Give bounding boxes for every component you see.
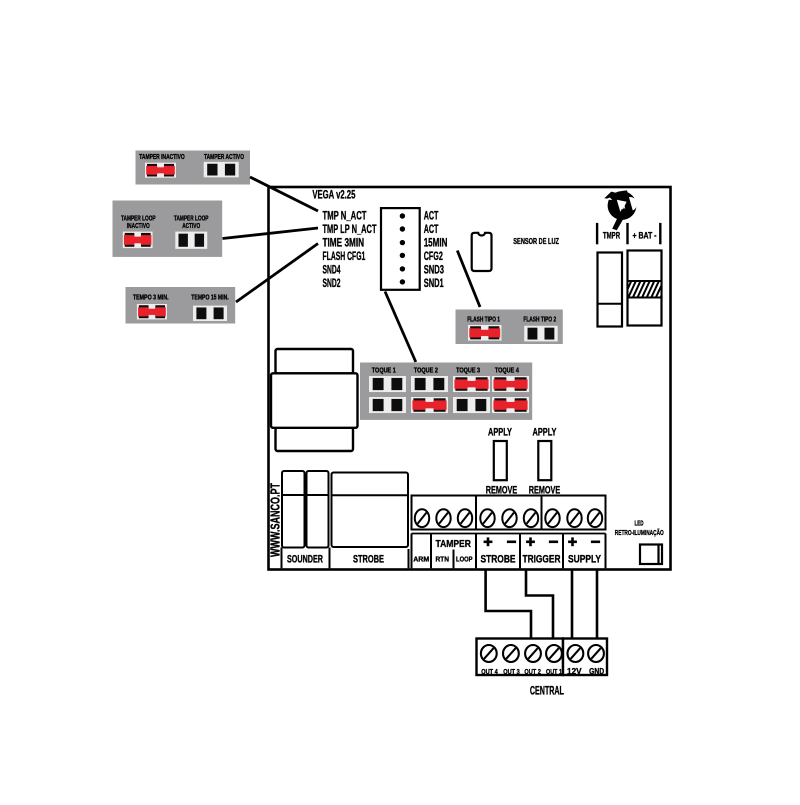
svg-text:TOQUE 1: TOQUE 1 <box>372 366 396 375</box>
sounder terminal block 2 <box>307 471 329 548</box>
terminal TMPR <box>598 253 623 327</box>
svg-text:INACTIVO: INACTIVO <box>127 221 150 230</box>
jumper TAMPER ACTIVO (open) <box>204 162 239 177</box>
svg-text:ARM: ARM <box>413 555 429 564</box>
svg-text:OUT 2: OUT 2 <box>524 667 541 676</box>
PCB board outline <box>269 187 671 570</box>
svg-text:TIME 3MIN: TIME 3MIN <box>323 235 365 249</box>
wire SUPPLY+ to 12V <box>571 570 574 638</box>
svg-text:ACT: ACT <box>424 208 439 222</box>
svg-text:CENTRAL: CENTRAL <box>530 686 564 698</box>
legend box TAMPER LOOP INACTIVO / ACTIVO <box>113 201 223 257</box>
svg-text:TEMPO 15 MIN.: TEMPO 15 MIN. <box>191 292 228 301</box>
svg-text:+ BAT -: + BAT - <box>633 231 657 241</box>
svg-text:12V: 12V <box>567 666 582 676</box>
jumper TOQUE 2 row2 (fitted, red) <box>411 397 448 413</box>
CENTRAL terminal block housing <box>477 639 608 676</box>
screw terminal TRIGGER- <box>545 509 559 527</box>
screw terminal RTN <box>436 509 450 527</box>
svg-text:RTN: RTN <box>435 555 449 564</box>
svg-text:TMP N_ACT: TMP N_ACT <box>323 208 367 222</box>
wire callout TAMPER box to TMP N_ACT <box>250 177 318 211</box>
svg-text:TAMPER ACTIVO: TAMPER ACTIVO <box>204 152 244 161</box>
svg-text:OUT 1: OUT 1 <box>546 667 562 676</box>
svg-text:LED: LED <box>635 521 644 528</box>
screw terminal STROBE+ <box>480 509 494 527</box>
screw terminal LOOP <box>458 509 472 527</box>
light sensor LDR <box>472 233 492 271</box>
svg-text:TOQUE 4: TOQUE 4 <box>495 366 520 375</box>
pin labels left column <box>323 208 377 290</box>
svg-text:TOQUE 2: TOQUE 2 <box>414 366 438 375</box>
svg-text:RETRO-ILUMINAÇÃO: RETRO-ILUMINAÇÃO <box>615 528 664 537</box>
screw terminal OUT 3 (central) <box>503 645 519 662</box>
svg-text:LOOP: LOOP <box>456 555 473 564</box>
svg-text:OUT 4: OUT 4 <box>481 667 498 676</box>
label LED RETRO-ILUMINACAO <box>615 521 664 538</box>
jumper TOQUE 1 row1 (open) <box>369 376 406 392</box>
pin labels right column <box>424 208 448 290</box>
strobe terminal block <box>332 473 409 548</box>
polarity - STROBE <box>507 541 516 544</box>
wire callout TEMPO box to TIME 3MIN <box>236 244 318 303</box>
jumper TOQUE 3 row2 (open) <box>453 397 490 413</box>
jumper TOQUE 4 row1 (fitted, red) <box>492 376 529 392</box>
polarity + STROBE <box>484 537 493 546</box>
legend box FLASH TIPO 1 / 2 <box>456 310 563 345</box>
screw terminal strip housing <box>412 496 606 530</box>
screw terminal SUPPLY+ <box>567 509 581 527</box>
svg-text:CFG2: CFG2 <box>424 249 443 263</box>
svg-text:APPLY: APPLY <box>488 427 512 439</box>
svg-text:GND: GND <box>589 666 604 676</box>
svg-text:SOUNDER: SOUNDER <box>287 553 323 565</box>
svg-text:OUT 3: OUT 3 <box>503 667 520 676</box>
jumper TAMPER INACTIVO (fitted, red) <box>145 163 176 178</box>
jumper TOQUE 1 row2 (open) <box>369 397 406 413</box>
jumper TAMPER LOOP ACTIVO (open) <box>175 232 207 249</box>
polarity + SUPPLY <box>568 537 577 546</box>
svg-text:VEGA v2.25: VEGA v2.25 <box>312 188 355 202</box>
jumper FLASH TIPO 2 (open) <box>524 326 557 342</box>
wire STROBE+ to OUT2 <box>486 570 531 638</box>
jumper TAMPER LOOP INACTIVO (fitted, red) <box>123 232 153 249</box>
svg-text:TMP LP N_ACT: TMP LP N_ACT <box>323 222 377 236</box>
svg-text:TAMPER INACTIVO: TAMPER INACTIVO <box>139 152 185 161</box>
jumper TOQUE 3 row1 (fitted, red) <box>453 376 490 392</box>
svg-text:SND2: SND2 <box>323 276 341 290</box>
svg-text:SND1: SND1 <box>424 276 444 290</box>
wire callout header to TOQUE block <box>385 292 416 363</box>
svg-text:SUPPLY: SUPPLY <box>568 553 601 565</box>
svg-text:APPLY: APPLY <box>533 427 557 439</box>
screw terminal OUT 4 (central) <box>481 645 497 662</box>
screw terminal ARM <box>415 509 429 527</box>
jumper TEMPO 3 MIN (fitted, red) <box>137 304 167 319</box>
svg-text:SND4: SND4 <box>323 262 341 276</box>
polarity - TRIGGER <box>549 541 558 544</box>
jumper TOQUE 2 row1 (open) <box>411 376 448 392</box>
wire callout TAMPER LOOP box to TMP LP N_ACT <box>223 228 319 239</box>
transformer / relay body <box>271 349 358 451</box>
separator bars TMPR/BAT <box>597 223 660 244</box>
terminal strip base line <box>412 533 606 535</box>
jumper APPLY/REMOVE 2 <box>538 441 551 480</box>
jumper APPLY/REMOVE 1 <box>494 441 507 480</box>
terminal label cell borders <box>282 534 606 569</box>
screw terminal OUT 1 (central) <box>546 645 562 662</box>
screw terminal GND (central) <box>588 645 604 662</box>
svg-text:ACTIVO: ACTIVO <box>182 221 200 230</box>
screw terminal STROBE- <box>502 509 516 527</box>
wire TRIGGER+ to OUT1 <box>526 570 553 638</box>
screw terminal OUT 2 (central) <box>525 645 541 662</box>
LED component box <box>640 545 662 565</box>
svg-text:STROBE: STROBE <box>481 553 516 565</box>
screw terminal SUPPLY- <box>588 509 602 527</box>
polarity - SUPPLY <box>591 541 600 544</box>
svg-text:TAMPER: TAMPER <box>436 538 472 550</box>
sounder terminal block 1 <box>282 471 305 548</box>
pin header J1 <box>381 208 420 290</box>
jumper TEMPO 15 MIN (open) <box>193 306 227 321</box>
wire SUPPLY- to GND <box>596 570 599 638</box>
svg-text:SENSOR DE LUZ: SENSOR DE LUZ <box>513 236 559 246</box>
legend box TEMPO 3 MIN / 15 MIN <box>126 287 236 324</box>
svg-text:FLASH TIPO 2: FLASH TIPO 2 <box>523 314 556 323</box>
screw terminal 12V (central) <box>568 645 584 662</box>
svg-text:15MIN: 15MIN <box>424 235 448 249</box>
wire callout CFG2 to FLASH TIPO block <box>457 251 480 308</box>
svg-text:FLASH TIPO 1: FLASH TIPO 1 <box>467 314 500 323</box>
svg-text:TEMPO 3 MIN.: TEMPO 3 MIN. <box>133 292 169 301</box>
svg-text:TOQUE 3: TOQUE 3 <box>456 366 480 375</box>
jumper TOQUE 4 row2 (fitted, red) <box>492 397 529 413</box>
svg-text:WWW.SANCO.PT: WWW.SANCO.PT <box>269 483 283 557</box>
jumper FLASH TIPO 1 (fitted, red) <box>468 325 501 341</box>
svg-text:STROBE: STROBE <box>353 553 384 565</box>
legend box TAMPER INACTIVO / ACTIVO <box>136 151 251 185</box>
legend box TOQUE 1-4 <box>360 363 532 420</box>
svg-text:ACT: ACT <box>424 222 439 236</box>
svg-text:SND3: SND3 <box>424 262 444 276</box>
svg-text:TRIGGER: TRIGGER <box>523 553 561 565</box>
svg-text:FLASH CFG1: FLASH CFG1 <box>323 249 366 263</box>
SANCO bird logo <box>604 190 637 230</box>
svg-text:TMPR: TMPR <box>603 231 621 241</box>
screw terminal TRIGGER+ <box>524 509 538 527</box>
terminal + BAT - <box>623 251 673 326</box>
polarity + TRIGGER <box>526 537 535 546</box>
